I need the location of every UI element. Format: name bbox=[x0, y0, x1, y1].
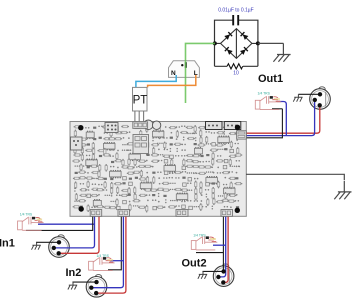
electrolytic capacitor C-elec2 on PCB top bbox=[152, 121, 160, 129]
wire: Out2 black from PCB to XLR pin1 bbox=[222, 216, 224, 271]
diode D1 (top-left arm) bbox=[224, 32, 232, 40]
XLR connector Out1 pins bbox=[313, 92, 323, 107]
wire: live (orange) from inlet L to PT bbox=[148, 75, 196, 87]
bridge rectifier diamond wires bbox=[215, 29, 258, 59]
wire: earth (green) from bridge through inlet bbox=[186, 43, 216, 103]
wire: Out1 XLR pin1 to chassis ground bbox=[298, 93, 319, 95]
wire: In1 red from PCB to XLR pin3 bbox=[59, 216, 99, 253]
In1 TRS jack bbox=[18, 217, 44, 231]
chassis ground (main, bottom right) bbox=[334, 181, 351, 199]
PT secondary lead 2 bbox=[138, 111, 140, 122]
mounting hole top-left bbox=[78, 125, 83, 130]
wire: In2 XLR pin1 to chassis ground bbox=[73, 281, 97, 284]
XLR connector In2 shell bbox=[86, 275, 107, 298]
XLR connector Out2 shell bbox=[213, 264, 234, 287]
wire: In2 jack tip tap to blue bbox=[110, 260, 123, 262]
wire: In2 black from PCB to jack sleeve bbox=[108, 216, 121, 269]
mounting hole bottom-left bbox=[79, 206, 84, 211]
Out1 TRS jack bbox=[255, 96, 281, 110]
wire: In2 red from PCB to XLR pin3 bbox=[96, 216, 126, 293]
diode D4 (bottom-right arm) bbox=[240, 47, 248, 55]
svg-text:1/4 TRS: 1/4 TRS bbox=[258, 92, 271, 96]
XLR Out2 male insert flat bbox=[228, 269, 230, 284]
XLR connector In1 shell bbox=[49, 235, 70, 257]
svg-text:0.01µF to 0.1µF: 0.01µF to 0.1µF bbox=[218, 8, 254, 14]
PCB right edge connector block bbox=[237, 131, 247, 139]
XLR connector Out1 shell bbox=[310, 87, 331, 110]
wire: In1 XLR pin1 to chassis ground bbox=[37, 241, 59, 244]
PCB bottom edge connector block (mid) bbox=[176, 210, 188, 217]
relay K1 on PCB top-right bbox=[206, 122, 223, 130]
resistor R1 (10 ohm) bbox=[227, 64, 243, 69]
svg-text:In1: In1 bbox=[0, 238, 15, 250]
svg-text:L: L bbox=[194, 70, 198, 77]
chassis ground (In2) bbox=[68, 282, 77, 289]
wire: In2 blue from PCB to XLR pin2 bbox=[91, 216, 123, 287]
wire: In1 black jack sleeve to PCB bbox=[26, 216, 93, 230]
trimmer component on PCB left edge bbox=[71, 137, 83, 150]
wire: neutral (cyan) from inlet N to PT bbox=[136, 75, 176, 87]
PCB bottom edge connector block (In2) bbox=[118, 210, 130, 217]
wire: Out2 jack tip tap to blue bbox=[213, 244, 226, 246]
capacitor C1 (0.01uF to 0.1uF) bbox=[233, 15, 238, 25]
mounting hole bottom-right bbox=[235, 208, 240, 213]
svg-text:Out2: Out2 bbox=[182, 258, 207, 270]
chassis ground (In1) bbox=[31, 242, 40, 249]
XLR connector In1 pins bbox=[52, 240, 62, 255]
chassis ground (Out2) bbox=[198, 271, 207, 278]
junction node right of bridge bbox=[256, 41, 260, 45]
svg-text:1/4 TRS: 1/4 TRS bbox=[193, 234, 206, 238]
svg-text:PT: PT bbox=[133, 95, 148, 107]
power transformer PT bbox=[133, 87, 148, 111]
wire: Out1 red (PCB to XLR pin3) bbox=[243, 105, 320, 133]
power terminal block on PCB (4-way, left-center) bbox=[133, 135, 149, 154]
IEC mains inlet connector bbox=[169, 61, 200, 78]
wire: Out2 blue from PCB to XLR pin2 bbox=[218, 216, 225, 277]
svg-text:Out1: Out1 bbox=[258, 73, 283, 85]
XLR connector Out2 pins bbox=[216, 269, 226, 284]
electrolytic capacitor C-elec1 on PCB top bbox=[144, 120, 154, 130]
Out2 TRS jack bbox=[191, 236, 217, 250]
junction node left of bridge bbox=[213, 41, 217, 45]
PCB main circuit board bbox=[70, 122, 246, 217]
diode D3 (bottom-left arm) bbox=[225, 47, 233, 55]
chassis ground (bridge) bbox=[273, 43, 290, 61]
PCB bottom edge connector block (Out2) bbox=[221, 210, 233, 217]
IC socket block on PCB top-left bbox=[105, 123, 118, 133]
wire: bridge right to chassis ground bbox=[258, 42, 284, 44]
svg-text:1/4 TRS: 1/4 TRS bbox=[97, 254, 110, 258]
diode D2 (top-right arm) bbox=[241, 32, 249, 40]
wire: PCB right to chassis ground (bottom right) bbox=[246, 174, 344, 180]
wire: In1 blue vertical from PCB bbox=[54, 216, 95, 248]
PCB bottom edge connector block (In1) bbox=[90, 210, 102, 217]
wire: Out2 XLR pin1 to chassis ground bbox=[203, 270, 224, 273]
wire: bridge outer loop (left and right sides, bottom) bbox=[215, 20, 258, 66]
wire: In1 jack tip tap to blue bbox=[38, 223, 95, 225]
wire: Out1 jack tip to blue bbox=[277, 102, 286, 136]
wire: Out2 red from PCB to XLR pin3 bbox=[223, 216, 228, 282]
relay K2 on PCB top-right bbox=[224, 122, 241, 130]
wire: Out1 jack sleeve stub bbox=[272, 108, 282, 110]
mounting hole top-right bbox=[235, 125, 240, 130]
wire: Out1 black shield (PCB to jack sleeve) bbox=[243, 109, 282, 138]
XLR Out1 male insert flat bbox=[325, 92, 327, 107]
XLR connector In2 pins bbox=[89, 280, 99, 295]
PT connector block on PCB top edge bbox=[133, 122, 148, 129]
wire: Out1 blue (PCB to XLR pin2) bbox=[243, 100, 315, 136]
svg-text:In2: In2 bbox=[66, 267, 82, 279]
svg-text:10: 10 bbox=[233, 71, 239, 77]
chassis ground (Out1) bbox=[293, 94, 302, 101]
In2 TRS jack bbox=[89, 257, 115, 271]
svg-text:1/4 TRS: 1/4 TRS bbox=[20, 213, 33, 217]
PT secondary lead 3 bbox=[143, 111, 145, 122]
svg-text:N: N bbox=[171, 70, 176, 77]
wire: Out2 jack sleeve stub to black bbox=[196, 252, 223, 254]
PT secondary lead 1 bbox=[134, 111, 136, 122]
